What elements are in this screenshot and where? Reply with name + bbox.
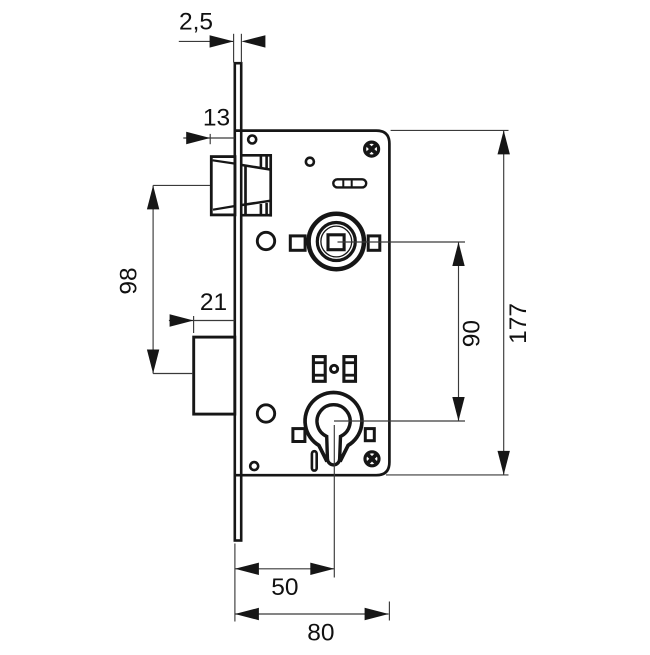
svg-text:2,5: 2,5 xyxy=(179,8,213,35)
svg-text:177: 177 xyxy=(505,303,532,344)
svg-text:90: 90 xyxy=(458,320,485,347)
svg-text:21: 21 xyxy=(200,289,227,316)
svg-text:50: 50 xyxy=(271,574,298,601)
svg-text:80: 80 xyxy=(307,620,334,647)
svg-text:98: 98 xyxy=(115,267,142,294)
svg-text:13: 13 xyxy=(203,104,230,131)
